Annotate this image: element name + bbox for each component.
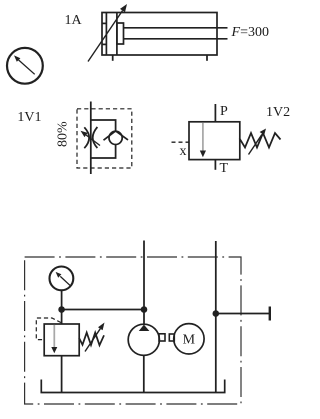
junction dot (pump) <box>141 306 148 313</box>
power unit frame (dash-dot) <box>25 257 241 404</box>
relief drain wire <box>61 356 63 393</box>
relief spring <box>79 333 104 346</box>
svg-text:x: x <box>180 144 187 159</box>
plug bar <box>269 307 271 321</box>
svg-text:M: M <box>183 332 196 347</box>
piston rod <box>124 27 228 29</box>
coupling <box>159 334 174 341</box>
1V1 check valve <box>109 131 122 144</box>
spare branch wire <box>216 313 270 315</box>
relief pilot line (dashed) <box>36 318 61 340</box>
svg-text:P: P <box>220 104 228 119</box>
1V2 adjust arrow <box>249 135 262 155</box>
svg-text:80%: 80% <box>56 121 71 147</box>
gauge stem wire <box>61 291 63 310</box>
pressure gauge (display, top-left) <box>7 48 43 84</box>
cushion adjust arrow <box>88 4 127 62</box>
manifold wire <box>62 309 144 311</box>
1V1 main line <box>90 102 92 175</box>
1V2 pilot port x (dashed) <box>172 141 190 143</box>
tank (reservoir) <box>41 380 224 393</box>
piston (two lines) <box>105 13 107 56</box>
svg-text:1V1: 1V1 <box>17 110 41 125</box>
1V1 dashed enclosure <box>77 109 132 168</box>
svg-text:F=300: F=300 <box>231 25 269 40</box>
relief adjust arrow <box>85 329 100 352</box>
pump suction wire <box>143 355 145 392</box>
pressure valve 1V2 <box>172 104 281 170</box>
1V2 port T wire <box>214 160 216 170</box>
svg-text:1A: 1A <box>65 13 83 28</box>
junction dot (gauge/relief) <box>58 306 65 313</box>
tank return wire <box>215 241 217 393</box>
relief valve <box>36 318 104 393</box>
svg-text:1V2: 1V2 <box>266 105 290 120</box>
left cushion boss <box>102 22 106 24</box>
pump 1P <box>128 324 159 392</box>
flow control valve 1V1 <box>77 102 132 175</box>
pump pressure riser wire <box>143 241 145 325</box>
svg-text:T: T <box>220 161 229 176</box>
1V1 throttle arcs <box>84 127 89 148</box>
1V2 spring <box>240 133 281 148</box>
motor M <box>174 324 204 354</box>
cylinder 1A body <box>102 13 228 56</box>
pressure gauge (power unit) <box>50 267 74 310</box>
1V2 port P wire <box>214 104 216 122</box>
cylinder port stubs <box>112 55 114 61</box>
1V2 flow arrow (gray) <box>200 123 206 157</box>
1V1 adjust arrow <box>86 135 100 146</box>
junction dot (return) <box>213 310 220 317</box>
1V2 body <box>189 122 240 160</box>
right cushion boss <box>117 23 124 44</box>
1V1 bypass branch wire <box>91 120 116 131</box>
relief valve inlet wire <box>61 310 63 325</box>
relief flow arrow (gray) <box>51 325 57 353</box>
